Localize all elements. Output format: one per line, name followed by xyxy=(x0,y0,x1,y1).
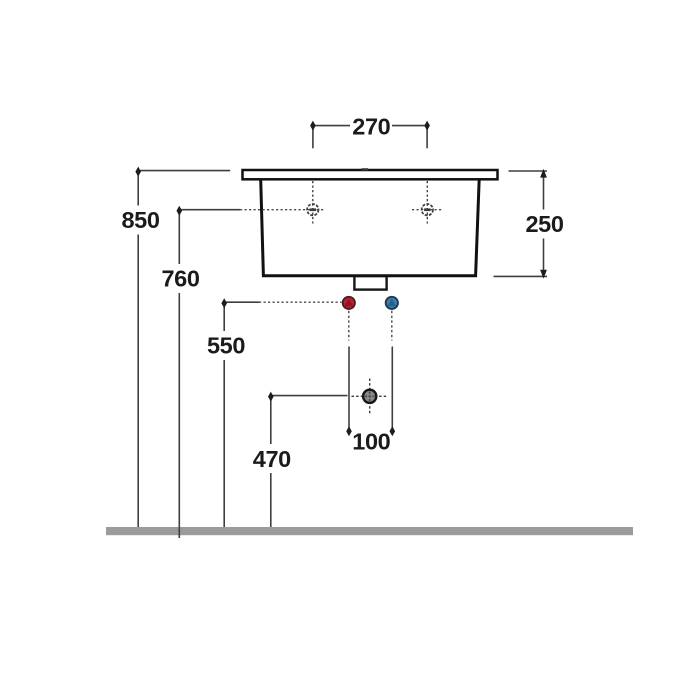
arrow 470 xyxy=(268,392,274,402)
left extension drop xyxy=(312,124,314,148)
faucet hole right circle xyxy=(422,204,433,215)
faucet hole left circle xyxy=(307,204,318,215)
dimension 100 xyxy=(349,347,392,430)
arrow up 250 xyxy=(540,169,547,178)
arrow left 100 xyxy=(346,426,352,436)
arrow 760 xyxy=(177,206,183,216)
drain box below basin xyxy=(354,276,386,290)
arrow down 250 xyxy=(540,270,547,279)
hot supply dotted drop line xyxy=(348,311,350,341)
dimension 760 xyxy=(179,210,240,538)
arrow 850 xyxy=(135,167,141,177)
arrow right 100 xyxy=(390,426,396,436)
svg-text:850: 850 xyxy=(121,207,159,233)
cold water supply symbol (blue) xyxy=(386,297,398,309)
dimension 250 xyxy=(494,171,548,276)
arrow 550 xyxy=(221,298,227,308)
svg-text:470: 470 xyxy=(253,446,291,472)
rim notch mark xyxy=(362,168,369,170)
svg-text:250: 250 xyxy=(525,211,563,237)
waste outlet crosshair xyxy=(369,379,371,414)
hot water supply symbol (red) xyxy=(343,297,355,309)
dimension 470 xyxy=(271,396,348,527)
floor line xyxy=(106,527,633,535)
dim line segments xyxy=(315,125,350,127)
svg-text:550: 550 xyxy=(207,333,245,359)
cold supply dotted drop line xyxy=(391,311,393,341)
arrow left of 270 xyxy=(310,121,316,131)
dimension 270 xyxy=(313,124,427,148)
basin body xyxy=(261,176,480,276)
svg-text:760: 760 xyxy=(161,266,199,292)
basin rim xyxy=(243,170,498,179)
arrow right of 270 xyxy=(424,121,430,131)
dotted reach to hot symbol xyxy=(259,301,342,303)
svg-text:270: 270 xyxy=(352,113,390,139)
dimension 850 xyxy=(138,171,230,527)
dimension 550 xyxy=(224,302,259,527)
right extension drop xyxy=(426,124,428,148)
faucet hole left crosshair xyxy=(312,181,314,224)
faucet hole right crosshair xyxy=(426,181,428,224)
svg-text:100: 100 xyxy=(352,429,390,455)
waste outlet symbol (grey) xyxy=(363,390,376,403)
